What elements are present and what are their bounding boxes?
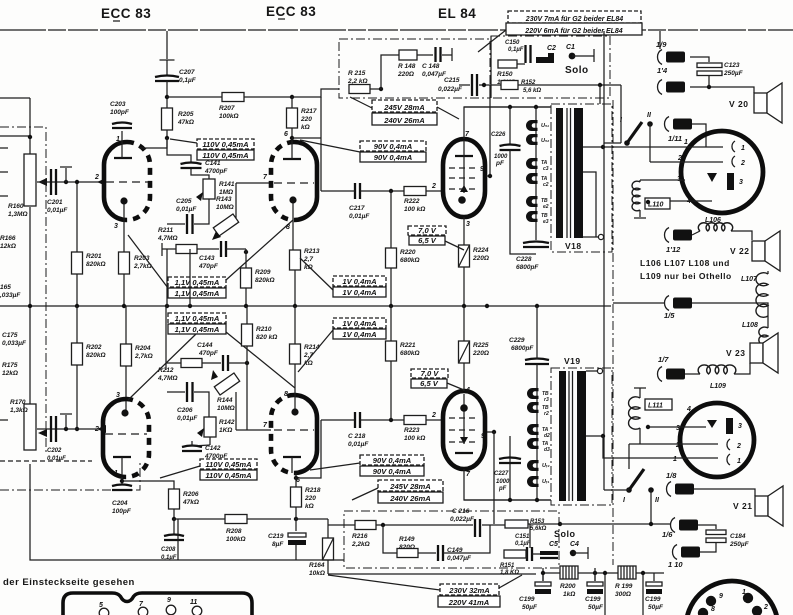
wire pot R160 bottom to pot R170	[29, 207, 31, 407]
leader to 90V box top	[300, 140, 360, 152]
svg-text:C175: C175	[2, 332, 18, 339]
svg-text:2: 2	[763, 604, 768, 611]
svg-text:ECC 83: ECC 83	[101, 6, 151, 21]
wire coupling column x321	[320, 97, 322, 191]
wire R209 to center rail	[245, 288, 247, 306]
capacitor C5 (thick plate)	[540, 551, 558, 558]
svg-text:100pF: 100pF	[112, 508, 132, 515]
winding TB e3 of V18	[526, 211, 538, 222]
svg-text:r2: r2	[544, 411, 549, 417]
wire R211 to C143	[197, 248, 219, 250]
svg-text:C142: C142	[205, 445, 221, 452]
winding TA d2 of V19	[527, 424, 539, 435]
wire switch II down to socket pin2 line	[649, 124, 651, 162]
junction screen pin9 top	[488, 174, 492, 178]
junction rail x124	[122, 304, 126, 308]
resistor R214 2,7kΩ	[290, 344, 301, 364]
svg-text:5,6 kΩ: 5,6 kΩ	[523, 88, 541, 94]
resistor R205 47kΩ	[162, 108, 173, 130]
box 7,0V top	[408, 226, 446, 235]
svg-text:90V 0,4mA: 90V 0,4mA	[373, 456, 411, 465]
contact arc 2 socket top	[732, 156, 735, 167]
wire R204 to T5 cathode	[125, 366, 127, 410]
svg-text:R143: R143	[216, 196, 232, 203]
anode/center line EL84 top	[463, 140, 465, 193]
junction R206/R208	[172, 517, 176, 521]
contact arc 1 socket top	[732, 141, 735, 152]
wire grid into T6 pin7	[236, 429, 271, 431]
V18 core bar secondary	[574, 108, 583, 238]
anode stub inside T6	[291, 457, 293, 473]
wire 1/9 to C123	[690, 57, 709, 62]
pentode EL84 top	[443, 139, 485, 217]
box 90V 0,4mA top a	[360, 141, 426, 151]
wire L107 to L108	[767, 316, 769, 328]
wire switch II bottom down	[650, 490, 652, 524]
box 1,1V 0,45mA bottom a	[168, 313, 226, 323]
capacitor C144 470pF	[223, 355, 228, 371]
svg-text:110V 0,45mA: 110V 0,45mA	[205, 471, 251, 480]
socket circle bottom right (tube base)	[686, 581, 778, 615]
resistor R221 680kΩ	[386, 341, 397, 361]
grid dashed line inside T2	[274, 182, 314, 184]
svg-text:90V 0,4mA: 90V 0,4mA	[374, 142, 412, 151]
pin 9 of bottom-right tube base	[706, 596, 716, 606]
grid dashed line inside T6	[274, 429, 314, 431]
open terminal of V19	[597, 368, 602, 373]
svg-text:2: 2	[675, 442, 680, 449]
wiper arrow of R160	[38, 178, 47, 186]
svg-text:R208: R208	[226, 528, 242, 535]
box 240V 26mA top	[372, 113, 437, 125]
svg-text:R202: R202	[86, 344, 102, 351]
resistor R222 100kΩ	[404, 187, 426, 196]
contact blade socket bottom	[726, 418, 733, 434]
triode T5 (ECC83 a) lower	[103, 399, 149, 477]
wire to connector 1/5	[613, 302, 666, 304]
leader to 1V box bottom	[298, 330, 333, 372]
capacitor C219 8µF	[288, 533, 306, 545]
junction stage2 HT	[290, 95, 294, 99]
grid g2 dashed inside EL84 bottom	[449, 429, 479, 431]
triode T6 (ECC83 b) lower	[271, 395, 317, 473]
svg-text:0,01µF: 0,01µF	[349, 213, 370, 220]
wire interstage network to rail	[166, 249, 168, 306]
resistor R153 5,6kΩ	[505, 520, 528, 528]
svg-text:220Ω: 220Ω	[472, 350, 489, 357]
leader 1,1V boxes to T6	[226, 332, 295, 388]
svg-text:1: 1	[737, 458, 741, 465]
wire C1 stub	[572, 55, 594, 57]
svg-text:R 199: R 199	[615, 583, 633, 590]
resistor R216 2,2kΩ	[355, 521, 376, 530]
svg-text:C 218: C 218	[348, 433, 366, 440]
wire C141 to R141	[191, 169, 209, 179]
wire into socket pin3 bottom	[648, 426, 706, 428]
svg-text:C208: C208	[161, 547, 176, 553]
svg-text:R209: R209	[255, 269, 271, 276]
anode bar inside EL84 bottom	[455, 452, 473, 454]
svg-text:R206: R206	[183, 491, 199, 498]
svg-text:0,1µF: 0,1µF	[515, 541, 531, 547]
stub left of R211	[161, 243, 163, 256]
svg-text:L107: L107	[741, 276, 758, 283]
svg-text:0,01µF: 0,01µF	[176, 206, 197, 213]
svg-text:C1: C1	[566, 44, 575, 51]
cathode dot EL84 bottom	[460, 404, 468, 412]
svg-text:1V 0,4mA: 1V 0,4mA	[342, 288, 376, 297]
box 110V 0,45mA stage1 b	[197, 150, 254, 160]
inductor L107	[756, 273, 768, 318]
svg-text:220V 41mA: 220V 41mA	[448, 598, 490, 607]
capacitor C208 0,1µF	[164, 535, 184, 541]
svg-text:C5: C5	[549, 541, 558, 548]
box 110V 0,45mA stage1' b	[200, 470, 257, 480]
svg-text:R170: R170	[10, 399, 26, 406]
svg-text:1 10: 1 10	[668, 560, 683, 569]
svg-text:6800pF: 6800pF	[511, 345, 534, 352]
wire T6 pin6 to R218	[295, 473, 297, 487]
wire into socket pin2 top	[650, 161, 723, 163]
wiper arrow R141	[196, 192, 203, 201]
V18 core lamination lines	[567, 108, 571, 238]
wire R150 to C150	[517, 63, 525, 65]
svg-text:220: 220	[304, 495, 316, 502]
anode bar inside EL84 top	[455, 155, 473, 157]
svg-text:C229: C229	[509, 337, 525, 344]
contact arc 1 socket bottom	[727, 454, 730, 465]
svg-text:165: 165	[0, 284, 11, 291]
junction rail x77	[75, 304, 79, 308]
trimmer R142 1KΩ	[204, 417, 216, 437]
svg-text:R210: R210	[256, 326, 272, 333]
svg-text:1000: 1000	[496, 479, 510, 485]
dashed stub bottom-left b	[0, 462, 140, 490]
svg-text:pF: pF	[495, 160, 505, 167]
wire screen stub EL84 top	[486, 175, 490, 177]
wire R208 to R218 node	[247, 518, 291, 520]
svg-text:1,8 KΩ: 1,8 KΩ	[500, 570, 519, 576]
wire row to R164	[327, 519, 329, 538]
junction II on 1/6 wire	[649, 522, 653, 526]
wire screen riser to R152 node	[489, 85, 491, 176]
wire R143 to grid wire T2	[235, 183, 237, 218]
grid g1 dashed inside EL84 top	[449, 167, 479, 169]
wiper arrow of R170	[38, 429, 47, 437]
svg-text:3: 3	[738, 423, 742, 430]
winding TA d3 of V19	[527, 438, 539, 449]
wire R216 to C216	[376, 524, 473, 526]
svg-text:L111: L111	[648, 403, 663, 410]
tick stub left edge c	[0, 195, 8, 197]
capacitor C4 contact dot	[570, 550, 576, 556]
svg-text:11: 11	[190, 599, 197, 606]
V19 core lamination lines	[569, 371, 573, 501]
resistor R215 2,2kΩ	[349, 85, 370, 94]
svg-text:C207: C207	[179, 69, 195, 76]
wire C149 up to main line	[443, 525, 490, 553]
capacitor C151 0,1µF	[527, 547, 532, 561]
wire R220 to center rail	[390, 268, 392, 306]
wire bar to C207	[166, 60, 168, 75]
svg-text:9: 9	[719, 593, 723, 600]
anode stub inside T5	[121, 457, 123, 475]
wire screen riser bottom	[493, 432, 495, 524]
connector 1/8	[667, 482, 695, 497]
pin 2 of bottom-right tube base	[752, 606, 762, 615]
svg-text:V18: V18	[565, 241, 582, 251]
svg-text:R150: R150	[497, 71, 513, 78]
wire C123 to 1/4 line	[708, 75, 710, 87]
variable resistor R144 10MΩ (slanted)	[214, 373, 239, 395]
winding U r1 of V19	[527, 476, 539, 487]
wire 1/7 to L109	[685, 373, 700, 375]
svg-text:Solo: Solo	[565, 65, 589, 76]
svg-text:R213: R213	[304, 248, 320, 255]
svg-text:L109: L109	[710, 383, 726, 390]
leader to 110V box stage1	[170, 139, 197, 143]
junction V18 secondary to socket	[601, 145, 605, 149]
capacitor C150 0,1µF	[526, 45, 531, 63]
wire C143 to R209 node	[226, 248, 246, 250]
svg-text:6,5 V: 6,5 V	[420, 379, 439, 388]
svg-text:R144: R144	[217, 397, 233, 404]
box 110V 0,45mA stage1 a	[197, 139, 254, 149]
wire C226 to bottom of V18 primary	[510, 150, 536, 254]
svg-text:R221: R221	[400, 342, 416, 349]
wire long bus from top to switch	[604, 31, 621, 143]
wire C217 to R222	[360, 190, 404, 192]
svg-text:1,3MΩ: 1,3MΩ	[8, 211, 28, 218]
grid arrow into T1 pin2	[97, 178, 106, 186]
svg-text:3: 3	[676, 425, 680, 432]
connector 1/9	[658, 50, 686, 65]
svg-text:680kΩ: 680kΩ	[400, 257, 420, 264]
svg-text:C141: C141	[205, 160, 221, 167]
svg-text:d3: d3	[544, 447, 550, 453]
junction rail x487	[485, 304, 489, 308]
svg-text:3: 3	[739, 179, 743, 186]
wire rail to R210	[246, 306, 248, 324]
svg-text:R222: R222	[404, 198, 420, 205]
svg-text:C201: C201	[47, 199, 63, 206]
wire C4 stub	[573, 552, 588, 554]
svg-text:R200: R200	[560, 583, 576, 590]
svg-text:kΩ: kΩ	[305, 503, 314, 510]
wire V22 to L107	[767, 271, 769, 274]
wire T2 cathode to R213	[292, 203, 294, 250]
junction C199b	[593, 571, 597, 575]
wire 1/10 to C184 bottom	[700, 542, 716, 552]
wire down to R149	[383, 525, 397, 553]
svg-text:2,7kΩ: 2,7kΩ	[134, 353, 153, 360]
svg-text:der Einsteckseite gesehen: der Einsteckseite gesehen	[3, 577, 135, 588]
wire R217 to T2 anode	[291, 128, 293, 143]
svg-text:U₅₁: U₅₁	[541, 123, 549, 129]
wire C142 link	[192, 441, 210, 446]
wire 1/9 up	[659, 31, 661, 49]
wire EL84 bottom anode to V19	[464, 469, 551, 500]
wire down to C226	[509, 107, 511, 144]
resistor R212 4,7MΩ	[181, 359, 202, 368]
junction R201/grid	[75, 180, 79, 184]
wire R206 to R208 row	[173, 509, 175, 519]
box 230V 32mA	[440, 584, 499, 595]
svg-text:ECC 83: ECC 83	[266, 4, 316, 19]
svg-text:300Ω: 300Ω	[615, 591, 631, 598]
wire C229 to V19 chain	[536, 364, 538, 386]
capacitor C199 50µF at x654	[646, 582, 662, 594]
svg-text:0,033µF: 0,033µF	[2, 340, 27, 347]
inductor L109	[698, 365, 736, 374]
anode stub inside T2	[291, 143, 293, 159]
svg-text:8: 8	[284, 391, 288, 398]
resistor R204 2,7kΩ	[121, 344, 132, 366]
svg-text:1'4: 1'4	[657, 66, 668, 75]
resistor R225 220Ω	[459, 341, 470, 363]
schematic sheet top border	[0, 29, 793, 31]
svg-text:,033µF: ,033µF	[0, 292, 21, 299]
box 1V 0,4mA bottom b	[333, 329, 386, 339]
svg-text:100kΩ: 100kΩ	[226, 536, 246, 543]
box 90V 0,4mA top b	[360, 152, 426, 162]
svg-text:110V 0,45mA: 110V 0,45mA	[202, 151, 248, 160]
junction R202/grid	[75, 427, 79, 431]
wire screen stub EL84 bottom	[487, 431, 494, 433]
wire R200 to R199	[578, 572, 618, 574]
wire 1/8 to V21	[694, 489, 755, 496]
wire stub to C199 at x543	[542, 573, 544, 581]
junction L110/pin4	[646, 200, 650, 204]
svg-text:EL 84: EL 84	[438, 6, 476, 21]
svg-text:820kΩ: 820kΩ	[86, 352, 106, 359]
svg-text:c2: c2	[543, 182, 549, 188]
junction grid node EL84 bottom	[389, 418, 393, 422]
junction rail x537	[535, 304, 539, 308]
resistor R217 220kΩ	[287, 108, 298, 128]
wire R218 to row	[295, 507, 297, 519]
solid left edge of top solo box	[490, 36, 492, 98]
svg-text:6,5 V: 6,5 V	[418, 236, 437, 245]
wire to R200	[543, 572, 560, 574]
socket circle V socket bottom	[680, 403, 754, 477]
wire HT bus over V18	[464, 106, 551, 108]
connector 1/5	[665, 296, 693, 311]
junction screen pin9 bottom	[492, 430, 496, 434]
cathode dot of T1	[120, 197, 127, 204]
wire down to C208	[173, 519, 175, 534]
svg-text:1V 0,4mA: 1V 0,4mA	[342, 330, 376, 339]
box 1V 0,4mA top b	[333, 287, 386, 297]
keying triangle socket bottom	[707, 420, 717, 428]
potentiometer R170 1,3kΩ	[24, 404, 36, 450]
box 90V 0,4mA bottom a	[360, 455, 424, 465]
capacitor C216 0,022µF	[475, 519, 480, 537]
terminal bar after C148	[451, 48, 453, 61]
wire rail to R212 stub	[165, 306, 167, 357]
wiper arrow R142	[197, 428, 204, 437]
leader to 1V box top	[300, 258, 333, 290]
switch pivot dot bottom	[626, 487, 632, 493]
wire R199 onward	[636, 572, 664, 574]
wire HT to R217	[291, 97, 293, 108]
svg-text:820kΩ: 820kΩ	[255, 277, 275, 284]
svg-text:9: 9	[480, 166, 484, 173]
switch blade top	[627, 122, 642, 143]
junction HT node stage1	[165, 95, 169, 99]
svg-text:6800pF: 6800pF	[516, 264, 539, 271]
wire R223 to EL84 grid	[426, 419, 443, 421]
wire C205 leg to rail	[189, 249, 191, 306]
svg-text:12kΩ: 12kΩ	[0, 243, 16, 250]
svg-text:2,2kΩ: 2,2kΩ	[351, 541, 370, 548]
svg-text:L109 nur bei Othello: L109 nur bei Othello	[640, 271, 732, 281]
keying triangle socket top	[707, 173, 717, 182]
resistor R203 2,7kΩ	[119, 252, 130, 274]
svg-text:R224: R224	[473, 247, 489, 254]
junction C123 bottom	[707, 85, 711, 89]
junction L111/pin3 wire	[646, 425, 650, 429]
wire V19 secondary tap	[586, 435, 603, 437]
wire 1/11 to socket pin1 line	[692, 124, 706, 147]
wire R221 to grid node	[390, 361, 392, 420]
switch blade bottom	[629, 469, 644, 490]
dash-dot box around output transformer V18	[551, 104, 612, 252]
resistor R211 4,7MΩ	[176, 245, 197, 254]
wire down to C219	[295, 519, 297, 531]
svg-text:C144: C144	[197, 342, 213, 349]
connector 1/11	[665, 117, 693, 132]
svg-text:3: 3	[116, 392, 120, 399]
wire T6 anode coupling to C218	[321, 419, 355, 421]
svg-text:1/11: 1/11	[668, 134, 682, 143]
stub L110 top	[639, 180, 641, 182]
resistor R206 47kΩ	[169, 489, 180, 509]
svg-text:820 kΩ: 820 kΩ	[256, 334, 277, 341]
wire C206 left leg	[167, 391, 185, 393]
wire R153 onward	[528, 523, 560, 525]
connector 1/7	[658, 367, 686, 382]
wire L106 to V22	[731, 231, 752, 240]
svg-text:1,1V 0,45mA: 1,1V 0,45mA	[175, 278, 220, 287]
wire grid into T2 pin7	[236, 182, 271, 184]
resistor R210 820kΩ	[242, 324, 253, 346]
junction rail x190	[188, 304, 192, 308]
svg-text:0,022µF: 0,022µF	[438, 86, 463, 93]
wire C207 to R205	[166, 81, 168, 108]
box 1,1V 0,45mA bottom b	[168, 324, 226, 334]
wire rail to R202	[76, 306, 78, 343]
svg-text:240V 26mA: 240V 26mA	[383, 116, 425, 125]
svg-text:d2: d2	[544, 433, 550, 439]
svg-text:47kΩ: 47kΩ	[182, 499, 199, 506]
svg-text:1/5: 1/5	[664, 311, 675, 320]
svg-text:2: 2	[736, 443, 741, 450]
junction V18 primary top	[534, 105, 538, 109]
svg-text:0,022µF: 0,022µF	[450, 516, 475, 523]
svg-text:1V 0,4mA: 1V 0,4mA	[342, 319, 376, 328]
junction rail x464	[462, 304, 466, 308]
svg-text:R164: R164	[309, 562, 325, 569]
svg-text:2: 2	[94, 174, 99, 181]
dash-dot box around output transformer V19	[551, 368, 612, 505]
leader 230V box to wire	[328, 575, 440, 590]
wire to R208	[174, 518, 225, 520]
wire R142 bottom	[209, 437, 211, 445]
capacitor C228 6800pF	[523, 242, 549, 248]
svg-text:8: 8	[711, 606, 715, 613]
svg-text:R211: R211	[158, 227, 173, 234]
